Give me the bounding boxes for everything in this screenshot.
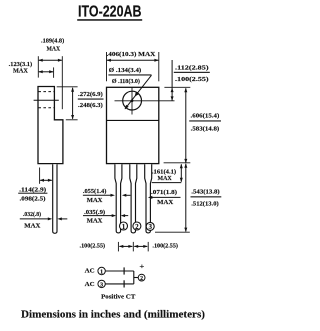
svg-text:.543(13.8): .543(13.8)	[191, 188, 219, 195]
dimension .161 arrow	[180, 164, 182, 181]
dimension .189 extension line left	[37, 56, 39, 77]
dimension .114/.098 arrow	[40, 179, 52, 181]
dimension .272/.248 extension line top	[57, 86, 78, 88]
side view hidden hole line lower	[38, 107, 54, 109]
svg-text:.512(13.0): .512(13.0)	[191, 200, 219, 207]
extension line body bottom right	[164, 162, 191, 164]
pin number 2	[133, 222, 141, 231]
side view hidden hole line upper	[38, 91, 54, 93]
svg-text:AC: AC	[85, 268, 95, 275]
pitch dimension arrows right span	[134, 245, 147, 247]
svg-text:.189(4.8): .189(4.8)	[41, 38, 64, 45]
front lead 1	[115, 164, 122, 233]
svg-text:+: +	[139, 262, 144, 270]
dimension .032 leader arrow left	[20, 218, 49, 220]
schematic terminal 2	[138, 274, 145, 282]
svg-text:.272(6.9): .272(6.9)	[78, 91, 103, 98]
schematic terminal 1	[98, 267, 105, 275]
title ITO-220AB	[77, 4, 142, 21]
svg-text:.583(14.8): .583(14.8)	[191, 125, 220, 132]
schematic wire top	[105, 270, 133, 272]
svg-text:2: 2	[140, 276, 143, 282]
svg-text:.055(1.4): .055(1.4)	[83, 188, 107, 195]
front lead 2	[130, 164, 137, 233]
svg-text:MAX: MAX	[13, 68, 28, 75]
dimension .035 right arrow	[124, 215, 128, 217]
schematic terminal 3	[98, 280, 105, 288]
svg-text:AC: AC	[85, 281, 95, 288]
dimension .123 extension bar	[53, 67, 55, 77]
svg-text:ITO-220AB: ITO-220AB	[78, 4, 142, 21]
dimension .035 leader arrow	[83, 215, 112, 217]
dimension .406 extension line right	[158, 52, 160, 81]
dimension .272(6.9)/.248(6.3) label	[78, 91, 104, 109]
schematic vertical wire	[133, 271, 135, 284]
front lead 3	[145, 164, 152, 233]
extension line body top right	[164, 86, 190, 88]
dimension .035(.9) MAX label	[84, 209, 105, 225]
front view body inner line	[107, 119, 159, 121]
mounting hole circle	[123, 91, 142, 110]
svg-text:.032(.8): .032(.8)	[23, 211, 41, 218]
dimension .114(2.9)/.098(2.5) label	[18, 186, 47, 202]
hole diameter labels	[108, 67, 151, 85]
dimension .114/.098 extension line	[39, 168, 41, 184]
dimension .123(3.1) MAX label	[9, 61, 33, 75]
schematic tick bottom	[123, 280, 125, 287]
pitch dimension bar 3	[147, 242, 149, 252]
pin number 1	[120, 222, 128, 231]
svg-text:.406(10.3) MAX: .406(10.3) MAX	[107, 51, 156, 58]
side view hole center line	[34, 99, 59, 101]
dimension .055 leader arrow	[83, 194, 111, 196]
svg-text:.114(2.9): .114(2.9)	[19, 186, 46, 193]
svg-text:3: 3	[100, 281, 103, 288]
dimension .543/.512 arrow	[185, 164, 187, 232]
dimension .606/.583 arrow	[185, 88, 187, 163]
pitch dimension arrows left span	[119, 245, 132, 247]
pitch dimension bar 1	[117, 242, 119, 252]
svg-text:.098(2.5): .098(2.5)	[20, 195, 46, 202]
dimension .071(1.8) MAX label	[151, 189, 177, 206]
svg-text:.248(6.3): .248(6.3)	[78, 102, 103, 109]
dimension .071 leader arrow	[152, 196, 181, 198]
dimension .272/.248 extension line bottom	[66, 119, 78, 121]
dimension .406 arrow line	[107, 59, 158, 61]
pin number 3	[146, 222, 154, 231]
svg-text:MAX: MAX	[87, 197, 103, 204]
svg-text:Dimensions in inches and (mill: Dimensions in inches and (millimeters)	[21, 309, 206, 320]
svg-text:1: 1	[100, 269, 103, 276]
dimension .112/.100 arrow shaft	[171, 60, 173, 101]
schematic wire bottom	[105, 283, 133, 285]
dimension .606(15.4)/.583(14.8) label	[189, 113, 221, 133]
svg-text:MAX: MAX	[157, 199, 173, 206]
svg-text:MAX: MAX	[158, 175, 172, 182]
hole vertical center line	[131, 87, 133, 114]
dimension .406 extension line left	[106, 52, 108, 81]
dimension .189 arrow line	[39, 59, 62, 61]
svg-text:3: 3	[148, 223, 152, 231]
hole horizontal center line	[115, 100, 175, 102]
dimension .543(13.8)/.512(13.0) label	[191, 188, 222, 207]
svg-text:MAX: MAX	[87, 218, 103, 225]
dimension .161 extension bar	[152, 182, 182, 184]
front view body outline	[107, 87, 159, 163]
svg-text:.100(2.55): .100(2.55)	[175, 76, 209, 83]
hole diameter leader line	[125, 75, 152, 109]
dimension .032(.8) MAX label	[23, 211, 41, 229]
svg-text:.035(.9): .035(.9)	[84, 209, 105, 216]
extension line lead tips right	[155, 231, 190, 233]
dimension .123 arrow line	[39, 71, 53, 73]
dimension .055 right arrow	[126, 194, 131, 196]
pitch dimension bar 2	[132, 242, 134, 252]
dimension .272/.248 arrow	[72, 88, 74, 119]
svg-text:Ø .134(3.4): Ø .134(3.4)	[109, 67, 141, 74]
side view lead	[53, 164, 57, 233]
schematic stub to terminal 2	[134, 277, 139, 279]
schematic tick top	[123, 267, 125, 274]
svg-text:MAX: MAX	[47, 45, 61, 52]
svg-text:.100(2.55): .100(2.55)	[152, 243, 178, 250]
svg-text:1: 1	[122, 223, 126, 231]
side view body outline	[38, 87, 63, 164]
dimension .189 extension line right	[61, 56, 63, 109]
dimension .189(4.8) MAX label	[41, 38, 64, 53]
dimension .055(1.4) MAX label	[83, 188, 107, 204]
svg-text:Positive CT: Positive CT	[101, 294, 136, 301]
dimension .032 arrow right	[61, 218, 67, 220]
dimension .161(4.1) MAX label	[152, 168, 176, 182]
svg-text:.071(1.8): .071(1.8)	[151, 189, 177, 196]
svg-text:2: 2	[135, 223, 139, 231]
svg-text:.112(2.85): .112(2.85)	[175, 64, 209, 71]
svg-text:MAX: MAX	[24, 222, 40, 229]
mounting hole center dot	[131, 99, 134, 102]
svg-text:.100(2.55): .100(2.55)	[80, 243, 106, 250]
svg-text:Ø .118(3.0): Ø .118(3.0)	[112, 78, 140, 85]
dimension .112/.100 label	[174, 64, 210, 83]
svg-text:.606(15.4): .606(15.4)	[191, 113, 220, 120]
